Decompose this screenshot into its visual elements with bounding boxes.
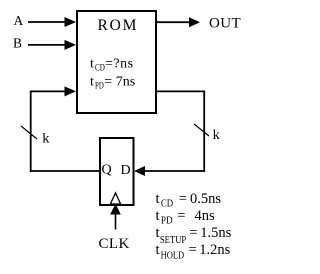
svg-text:Q: Q: [102, 163, 112, 178]
clock edge triangle: [110, 193, 120, 204]
ROM U1: [77, 11, 156, 113]
svg-text:tPD=4ns: tPD=4ns: [156, 208, 216, 227]
wire ROM to right bus: [157, 90, 205, 92]
CLK arrow: [110, 204, 121, 215]
wire A input: [28, 21, 66, 23]
svg-text:tCD=0.5ns: tCD=0.5ns: [156, 191, 222, 209]
wire into D input: [144, 170, 205, 172]
wire feedback into ROM: [31, 90, 66, 92]
svg-text:k: k: [213, 128, 220, 143]
wire Q output to left bus: [30, 170, 100, 172]
svg-text:CLK: CLK: [99, 236, 130, 252]
flip-flop U2: [100, 138, 134, 205]
wire OUT output: [157, 21, 191, 23]
svg-text:k: k: [42, 132, 49, 147]
bus slash right: [194, 124, 209, 136]
svg-text:ROM: ROM: [98, 17, 139, 34]
svg-text:D: D: [121, 163, 131, 178]
svg-text:OUT: OUT: [209, 15, 241, 31]
svg-text:tPD=7ns: tPD=7ns: [90, 75, 135, 92]
wire CLK stem: [115, 215, 117, 230]
wire right vertical bus: [203, 91, 205, 172]
wire B input: [28, 44, 66, 46]
svg-text:B: B: [13, 36, 22, 51]
svg-text:tCD=?ns: tCD=?ns: [90, 57, 134, 74]
bus slash left: [21, 126, 37, 139]
svg-text:A: A: [14, 13, 24, 28]
wire left vertical bus: [30, 91, 32, 172]
